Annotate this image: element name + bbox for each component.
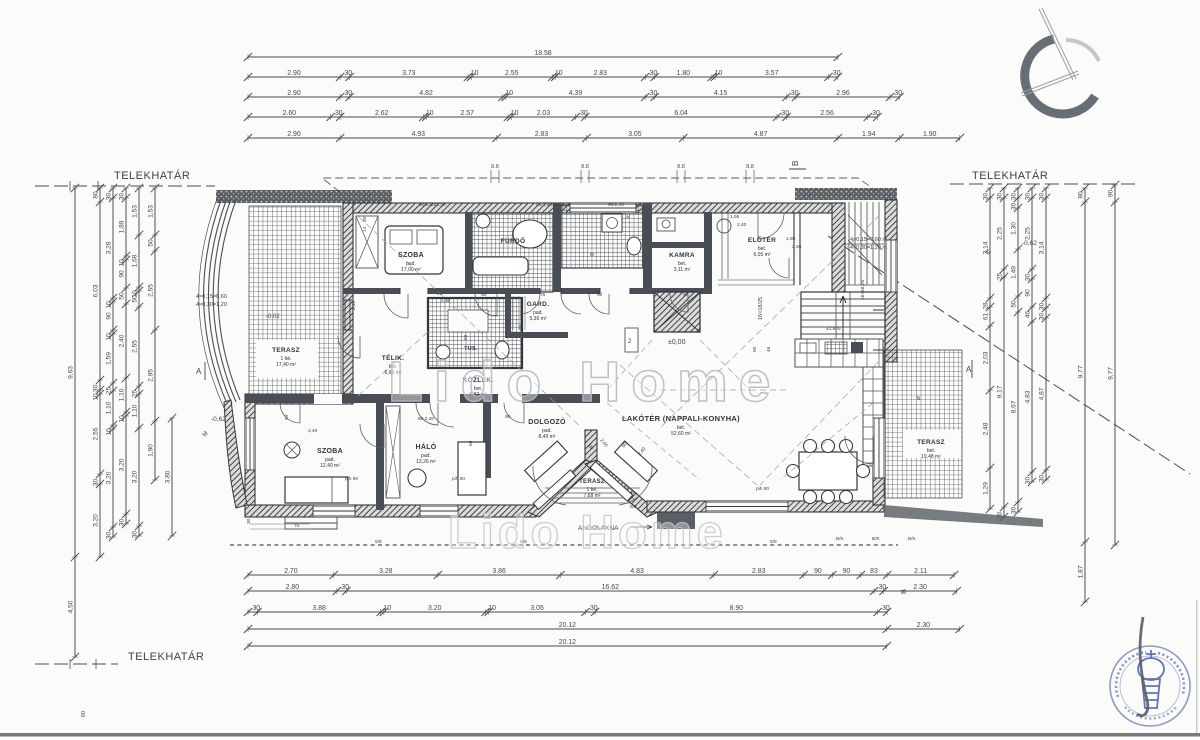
svg-text:90: 90 [683, 292, 689, 298]
svg-text:16×18/25: 16×18/25 [758, 297, 764, 320]
svg-text:61: 61 [983, 313, 990, 321]
svg-text:3,14: 3,14 [1039, 241, 1046, 254]
svg-text:30: 30 [1025, 274, 1032, 282]
svg-text:TERASZ: TERASZ [579, 479, 605, 485]
svg-text:90: 90 [597, 292, 603, 298]
svg-text:1,10: 1,10 [106, 401, 113, 414]
chair halo [408, 469, 426, 487]
stair direction arrow [840, 296, 846, 352]
window szoba2 bottom [313, 505, 355, 517]
angolakna hatched box [657, 512, 695, 529]
svg-text:10: 10 [383, 605, 391, 612]
dimension chain left 6.03/3.20 [99, 188, 101, 557]
svg-text:30: 30 [983, 193, 990, 201]
svg-text:2,25: 2,25 [997, 227, 1004, 240]
wall top rooms bottom b [428, 288, 540, 294]
dining table [799, 452, 857, 490]
svg-text:30: 30 [580, 110, 588, 117]
bed halo [458, 442, 486, 495]
window halo bottom [420, 505, 458, 517]
svg-text:7,68 m²: 7,68 m² [584, 493, 601, 499]
wall furdo-wc [553, 203, 561, 292]
svg-text:3,20: 3,20 [106, 471, 113, 484]
svg-text:10: 10 [106, 301, 113, 309]
svg-text:9,77: 9,77 [1078, 365, 1085, 378]
window wc top [570, 203, 636, 213]
dimension chain right col5 [1045, 188, 1047, 480]
svg-text:80: 80 [81, 711, 87, 717]
wardrobe halo strip [386, 406, 400, 498]
svg-text:50: 50 [119, 292, 126, 300]
svg-text:30: 30 [132, 531, 139, 539]
window lakoter bottom [706, 501, 788, 512]
outdoor stair steps strip right [849, 202, 879, 285]
boundary dashed line top-right [950, 183, 1135, 185]
roof tick pair [746, 170, 754, 183]
bathtub furdo corner [473, 257, 528, 275]
svg-text:DOLGOZÓ: DOLGOZÓ [528, 417, 566, 426]
svg-text:3,20: 3,20 [132, 470, 139, 483]
svg-text:60: 60 [468, 440, 474, 446]
svg-text:30: 30 [1011, 203, 1018, 211]
svg-text:90: 90 [814, 568, 822, 575]
dimension chain left col6 [154, 188, 156, 480]
svg-text:50: 50 [1011, 300, 1018, 308]
svg-text:30: 30 [791, 90, 799, 97]
bed szoba1 [385, 226, 443, 274]
svg-text:30: 30 [93, 479, 100, 487]
svg-text:-0,62: -0,62 [1022, 240, 1037, 247]
svg-text:30: 30 [1039, 193, 1046, 201]
curved terrace west wall arcs [199, 196, 240, 408]
svg-text:4.83: 4.83 [630, 568, 644, 575]
interior stair block [801, 292, 885, 348]
svg-text:9,77: 9,77 [1108, 367, 1115, 380]
svg-text:±1,825: ±1,825 [826, 326, 841, 332]
wall kamra-eloter [704, 212, 712, 292]
svg-text:14: 14 [362, 226, 368, 232]
svg-text:90/1,50/2,28: 90/1,50/2,28 [419, 202, 446, 208]
svg-text:TERASZ: TERASZ [272, 347, 300, 354]
gravel band right of terrace [884, 505, 1043, 527]
svg-text:LAKÓTÉR (NAPPALI-KONYHA): LAKÓTÉR (NAPPALI-KONYHA) [622, 414, 740, 423]
svg-text:10: 10 [488, 605, 496, 612]
svg-text:90: 90 [106, 312, 113, 320]
dimension chain left col3 [112, 188, 114, 537]
svg-text:30: 30 [1011, 193, 1018, 201]
svg-text:6,05 m²: 6,05 m² [754, 252, 771, 258]
stamp curved text ring (illegible) [1116, 652, 1146, 697]
svg-text:3.86: 3.86 [492, 568, 506, 575]
svg-text:30: 30 [997, 193, 1004, 201]
svg-text:30: 30 [344, 70, 352, 77]
svg-text:30: 30 [119, 519, 126, 527]
svg-text:TELEKHATÁR: TELEKHATÁR [972, 169, 1048, 182]
svg-text:5/8: 5/8 [770, 539, 777, 545]
svg-text:30: 30 [1039, 475, 1046, 483]
compass faint arc segment [1066, 40, 1099, 61]
dimension chain right col1 [989, 188, 991, 509]
svg-text:30: 30 [833, 70, 841, 77]
svg-text:2.90: 2.90 [287, 131, 301, 138]
svg-text:2,40: 2,40 [441, 298, 451, 304]
svg-text:2,40: 2,40 [308, 428, 318, 434]
svg-text:2,55: 2,55 [148, 284, 155, 297]
roof ridge dashed diagonals [358, 215, 880, 485]
svg-text:3.57: 3.57 [765, 70, 779, 77]
svg-text:3.73: 3.73 [402, 70, 416, 77]
table szoba2 [284, 442, 300, 458]
svg-text:pih 90: pih 90 [756, 486, 769, 492]
svg-text:2.62: 2.62 [375, 110, 389, 117]
signature stroke [1137, 617, 1148, 716]
dimension chain top row 5 [248, 137, 960, 139]
svg-text:4.82: 4.82 [419, 90, 433, 97]
dimension chain top row 2 [248, 76, 838, 78]
svg-text:30: 30 [119, 193, 126, 201]
svg-text:30: 30 [252, 605, 260, 612]
svg-text:2.96: 2.96 [836, 90, 850, 97]
svg-text:10: 10 [106, 428, 113, 436]
dimension chain right col7 9.77 [1114, 185, 1116, 545]
svg-text:17,40 m²: 17,40 m² [276, 362, 296, 368]
svg-text:2,95: 2,95 [148, 369, 155, 382]
svg-text:3,11 m²: 3,11 m² [674, 267, 691, 273]
svg-text:4.15: 4.15 [714, 90, 728, 97]
dimension chain top total 18.58 [248, 56, 838, 58]
terasz label box [256, 340, 318, 378]
svg-text:TELEKHATÁR: TELEKHATÁR [128, 650, 204, 663]
svg-text:30: 30 [106, 532, 113, 540]
svg-text:KAMRA: KAMRA [669, 252, 695, 259]
svg-text:8.8: 8.8 [581, 164, 589, 170]
wall bottom rooms top [245, 394, 600, 403]
svg-text:30: 30 [93, 385, 100, 393]
exterior wall szoba2 left [245, 394, 255, 512]
right terrace tile grid [884, 350, 962, 498]
wall top rooms bottom c [561, 288, 600, 294]
svg-text:10: 10 [106, 333, 113, 341]
wall bay vertical [585, 430, 597, 464]
svg-text:2.30: 2.30 [913, 584, 927, 591]
svg-text:30: 30 [781, 110, 789, 117]
svg-text:17,00 m²: 17,00 m² [401, 267, 421, 273]
kozlek door arcs extra [520, 294, 540, 314]
svg-text:50: 50 [132, 295, 139, 303]
svg-text:6,03: 6,03 [93, 284, 100, 297]
curved wall hatched taper bottom-left [224, 400, 247, 508]
wall szoba1-furdo [465, 212, 472, 292]
svg-text:80: 80 [1078, 191, 1085, 199]
dimension chain right col4 [1031, 188, 1033, 482]
svg-text:3.88: 3.88 [312, 605, 326, 612]
svg-text:2,03: 2,03 [983, 351, 990, 364]
svg-text:9,17: 9,17 [997, 385, 1004, 398]
svg-text:SZOBA: SZOBA [398, 252, 424, 259]
svg-text:80: 80 [362, 216, 368, 222]
svg-text:5,36 m²: 5,36 m² [530, 316, 547, 322]
svg-text:4.93: 4.93 [412, 131, 426, 138]
wall bay diagonal right [585, 460, 658, 517]
svg-text:1,59: 1,59 [106, 352, 113, 365]
svg-text:8.8: 8.8 [746, 164, 754, 170]
svg-text:19,48 m²: 19,48 m² [921, 454, 941, 460]
kitchen counter top row [795, 339, 883, 367]
svg-text:10: 10 [119, 415, 126, 423]
steps diagonal marks [848, 215, 882, 275]
svg-text:1.94: 1.94 [862, 131, 876, 138]
svg-text:1.80: 1.80 [677, 70, 691, 77]
svg-text:HÁLÓ: HÁLÓ [415, 442, 436, 451]
svg-text:3.28: 3.28 [379, 568, 393, 575]
svg-text:4×0,15=0,60: 4×0,15=0,60 [196, 294, 227, 300]
svg-text:-0,62: -0,62 [211, 416, 226, 423]
svg-text:30: 30 [590, 605, 598, 612]
door frame ticks at wall openings [343, 280, 794, 330]
svg-text:75: 75 [540, 292, 546, 298]
svg-text:2,55: 2,55 [132, 340, 139, 353]
svg-text:6.04: 6.04 [674, 110, 688, 117]
svg-text:90 2,40: 90 2,40 [418, 416, 434, 422]
wall gard left [505, 294, 511, 338]
svg-text:TELEKHATÁR: TELEKHATÁR [114, 169, 190, 182]
svg-text:8.8: 8.8 [491, 164, 499, 170]
svg-text:B: B [791, 161, 800, 166]
window szoba2 left [245, 418, 255, 470]
wall gard bottom [505, 332, 568, 338]
entrance walk lines bottom-left [250, 524, 310, 529]
gard hanger lines [513, 296, 525, 330]
exterior wall bottom left [245, 505, 536, 517]
svg-text:1,49: 1,49 [1011, 266, 1018, 279]
kitchen cabinet divisions [807, 339, 879, 367]
boundary dashed line bottom-left [35, 663, 118, 665]
svg-text:25: 25 [106, 387, 113, 395]
svg-text:46: 46 [1025, 311, 1032, 319]
door lakoter terrace [873, 418, 885, 478]
wall top rooms bottom a [343, 288, 400, 294]
svg-text:2.83: 2.83 [594, 70, 608, 77]
wardrobe szoba1 [356, 216, 378, 268]
stamp outer circle [1110, 646, 1190, 726]
wall szoba2-halo [376, 403, 384, 510]
bed szoba2 [285, 477, 348, 503]
svg-text:2.56: 2.56 [820, 110, 834, 117]
svg-text:2,55: 2,55 [93, 427, 100, 440]
svg-text:3,20: 3,20 [119, 458, 126, 471]
terrace bay deck lines [545, 488, 640, 503]
svg-text:30: 30 [1025, 193, 1032, 201]
svg-text:90: 90 [284, 414, 290, 420]
terrace top edge dark band [216, 190, 392, 203]
dimension chain left col7 3.80 [171, 418, 173, 536]
svg-text:3.05: 3.05 [530, 605, 544, 612]
terrace tile grid top-left [249, 206, 341, 394]
svg-text:A: A [196, 367, 202, 376]
exterior wall top main [343, 203, 843, 213]
roof tick pair [581, 170, 589, 183]
shower furdo [513, 220, 547, 248]
dimension chain bottom row 5 [248, 645, 887, 647]
svg-text:30: 30 [1039, 313, 1046, 321]
svg-text:B/K: B/K [908, 536, 917, 542]
svg-text:9,63: 9,63 [68, 366, 75, 379]
svg-text:pih 90: pih 90 [345, 476, 358, 482]
scan right edge faint line [1196, 600, 1198, 733]
svg-text:90: 90 [437, 291, 443, 297]
bottom dashed row of wall ticks [230, 544, 898, 546]
svg-text:83: 83 [870, 568, 878, 575]
svg-text:SZOBA: SZOBA [317, 448, 343, 455]
fireplace block [654, 292, 700, 332]
wc bowl wc room [627, 237, 641, 255]
svg-text:5/8: 5/8 [375, 539, 382, 545]
lakoter furniture rotated against bay [615, 441, 658, 482]
svg-text:pih 90: pih 90 [452, 476, 465, 482]
bay french door leaf left [533, 462, 633, 510]
exterior wall right upper [885, 200, 897, 362]
svg-text:90/2,40: 90/2,40 [608, 202, 624, 208]
svg-text:90: 90 [843, 568, 851, 575]
svg-text:4×0,15=0,60 m: 4×0,15=0,60 m [850, 237, 887, 243]
svg-text:4,83: 4,83 [1025, 390, 1032, 403]
roof overhang dashed line top [322, 178, 878, 192]
svg-text:3,80: 3,80 [165, 470, 172, 483]
svg-text:TERASZ: TERASZ [917, 439, 945, 446]
svg-text:2,40: 2,40 [351, 300, 357, 310]
svg-text:1,53: 1,53 [148, 205, 155, 218]
scan bottom edge line [0, 733, 1200, 737]
svg-text:4,50: 4,50 [68, 600, 75, 613]
svg-text:2,40: 2,40 [737, 222, 747, 228]
compass north symbol arc [1025, 39, 1095, 114]
svg-text:30: 30 [650, 90, 658, 97]
exterior wall left main [343, 203, 353, 399]
svg-text:w: w [626, 215, 630, 220]
svg-text:2.83: 2.83 [535, 131, 549, 138]
svg-text:70: 70 [294, 523, 300, 529]
svg-text:80: 80 [93, 191, 100, 199]
svg-text:2.30: 2.30 [917, 622, 931, 629]
svg-text:Ø: Ø [916, 396, 922, 400]
exterior wall lakoter right [873, 360, 885, 505]
svg-text:13,26 m²: 13,26 m² [416, 459, 436, 465]
wall halo-dolgozo [483, 403, 491, 478]
svg-text:52,60 m²: 52,60 m² [671, 431, 691, 437]
bath2 sink [436, 345, 450, 359]
svg-text:2.90: 2.90 [287, 70, 301, 77]
washer wc room [602, 214, 622, 232]
svg-text:4.87: 4.87 [754, 131, 768, 138]
svg-text:16.62: 16.62 [602, 584, 619, 591]
svg-text:2.70: 2.70 [284, 568, 298, 575]
door gaps in bottom rooms wall [314, 394, 342, 404]
svg-text:8,49 m²: 8,49 m² [539, 434, 556, 440]
svg-text:1,10: 1,10 [119, 388, 126, 401]
svg-text:30: 30 [1039, 303, 1046, 311]
wall szoba2 top [250, 394, 353, 404]
stair mid rails [836, 292, 850, 352]
svg-text:8.8: 8.8 [677, 164, 685, 170]
svg-text:Lido Home: Lido Home [388, 350, 782, 414]
bathroom tile grid [472, 213, 553, 292]
svg-text:ELŐTÉR: ELŐTÉR [748, 235, 776, 244]
boundary dashed line top-left [35, 185, 215, 187]
svg-text:8.90: 8.90 [730, 605, 744, 612]
wc tile grid [561, 205, 643, 268]
svg-text:10: 10 [93, 393, 100, 401]
roof tick pair [677, 170, 685, 183]
telik window band left wall [345, 300, 350, 330]
dining chairs [787, 440, 870, 504]
svg-text:90: 90 [1025, 289, 1032, 297]
porch steps bottom-left [285, 517, 337, 529]
kitchen counter right column [863, 367, 883, 466]
dimension chain right col6 9.77 [1084, 188, 1086, 602]
dimension chain top row 3 [248, 96, 900, 98]
svg-text:2.90: 2.90 [287, 90, 301, 97]
svg-text:1,90: 1,90 [148, 444, 155, 457]
dimension chain left col5 [138, 188, 140, 536]
svg-text:30: 30 [106, 193, 113, 201]
svg-text:2.55: 2.55 [505, 70, 519, 77]
wall telik bottom [352, 394, 430, 402]
small cabinet box 2 [625, 328, 638, 352]
dimension chain right col2 [1003, 188, 1005, 517]
kamra divider [652, 242, 710, 248]
svg-text:2,48: 2,48 [983, 422, 990, 435]
svg-text:4×0,30=1,20 m: 4×0,30=1,20 m [850, 245, 887, 251]
svg-text:20.12: 20.12 [559, 639, 576, 646]
exterior wall bottom right [647, 501, 884, 512]
svg-text:1,53: 1,53 [132, 205, 139, 218]
svg-text:1,95: 1,95 [786, 236, 796, 242]
svg-text:30: 30 [882, 605, 890, 612]
svg-text:12,40 m²: 12,40 m² [320, 463, 340, 469]
door arcs [384, 294, 408, 318]
wall bay diagonal left [528, 460, 597, 517]
svg-text:A: A [966, 365, 972, 374]
exterior dark strip top-right [795, 188, 897, 200]
lakoter extra dashes [607, 340, 873, 480]
svg-text:3.20: 3.20 [428, 605, 442, 612]
svg-text:20.12: 20.12 [559, 622, 576, 629]
window upper right wall [885, 240, 897, 292]
svg-text:25: 25 [132, 390, 139, 398]
roof tick pair [491, 170, 499, 183]
svg-text:90: 90 [119, 270, 126, 278]
svg-text:50: 50 [148, 239, 155, 247]
svg-text:10: 10 [555, 70, 563, 77]
svg-text:1,68: 1,68 [132, 254, 139, 267]
svg-text:2,40: 2,40 [119, 334, 126, 347]
sink furdo [476, 214, 490, 228]
svg-text:90: 90 [481, 292, 487, 298]
svg-text:2,25: 2,25 [1025, 227, 1032, 240]
dimension chain left col4 [125, 188, 127, 524]
dimension chain top row 4 [248, 116, 877, 118]
bath2 wc [495, 341, 509, 359]
svg-text:4.39: 4.39 [569, 90, 583, 97]
svg-text:1,29: 1,29 [983, 482, 990, 495]
dimension chain bottom row 3 [248, 611, 887, 613]
svg-text:18.58: 18.58 [534, 50, 551, 57]
boundary diagonal dashed line right [828, 236, 1190, 474]
svg-text:30: 30 [879, 584, 887, 591]
wall wc-kamra [643, 203, 652, 292]
kamra sink [657, 218, 675, 231]
eloter sink [717, 219, 731, 233]
